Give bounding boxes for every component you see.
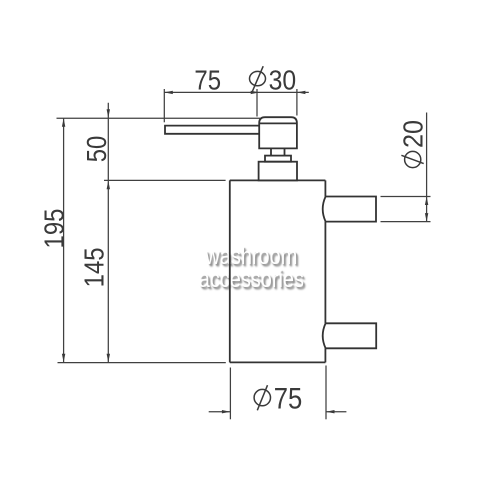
- extension line head left: [256, 89, 258, 117]
- arrow 75 bottom right: [326, 410, 335, 413]
- pump stem: [271, 148, 285, 155]
- extension line spout top: [381, 196, 431, 198]
- extension line body bottom left: [58, 362, 226, 364]
- body cylinder right edge segment above upper spout: [324, 180, 326, 196]
- arrow 145 top: [107, 181, 110, 190]
- dimension line 75 and 30 top: [164, 91, 308, 93]
- svg-text:195: 195: [38, 209, 70, 249]
- svg-text:75: 75: [274, 382, 303, 415]
- pump head: [259, 117, 297, 148]
- pump head seam line: [259, 122, 297, 124]
- extension line spout bottom: [381, 221, 431, 223]
- body cylinder right edge segment below lower spout: [324, 348, 326, 362]
- arrow 30 right: [297, 91, 306, 94]
- dimension line 75 bottom left tail: [209, 411, 231, 413]
- watermark washroom accessories: [1, 245, 500, 269]
- diameter symbol top: [250, 71, 266, 85]
- arrow 20 top: [425, 197, 428, 206]
- arrow 195 bottom: [62, 354, 65, 363]
- extension line body bottom right vertical: [325, 366, 327, 420]
- body cylinder left edge: [229, 180, 231, 362]
- dimension line 50 145: [107, 103, 109, 363]
- svg-text:20: 20: [397, 120, 429, 148]
- arrow 30 left: [251, 91, 260, 94]
- pump base block: [259, 162, 297, 181]
- svg-text:145: 145: [78, 247, 110, 287]
- arrow 145 bottom: [107, 354, 110, 363]
- dimension line 20: [426, 113, 428, 222]
- body cylinder bottom edge: [230, 361, 326, 363]
- diameter symbol 20: [405, 151, 421, 167]
- arrow 50 top: [107, 109, 110, 118]
- body cylinder top edge: [230, 179, 326, 181]
- extension line lever left end: [163, 89, 165, 122]
- arrow 20 bottom: [425, 213, 428, 222]
- dimension line 195: [63, 118, 65, 362]
- upper spout outline: [325, 197, 376, 222]
- extension line head right: [296, 89, 298, 116]
- arrow 195 top: [62, 118, 65, 127]
- svg-text:75: 75: [194, 64, 221, 96]
- extension line top of unit: [57, 117, 261, 119]
- dimension line 75 bottom right tail: [326, 411, 346, 413]
- arrow 75 left: [164, 91, 173, 94]
- body cylinder right edge segment between spouts: [324, 222, 326, 324]
- diameter symbol 75 bottom: [254, 389, 270, 405]
- lower spout root arc: [323, 323, 326, 348]
- lower spout outline: [325, 323, 376, 348]
- upper spout root arc: [323, 197, 326, 222]
- lever arm: [165, 126, 259, 134]
- pump flange: [265, 156, 291, 162]
- extension line body top left: [104, 179, 226, 181]
- svg-text:50: 50: [80, 136, 112, 163]
- arrow 75 bottom left: [222, 410, 231, 413]
- svg-text:30: 30: [269, 64, 297, 96]
- extension line body bottom left vertical: [229, 368, 231, 420]
